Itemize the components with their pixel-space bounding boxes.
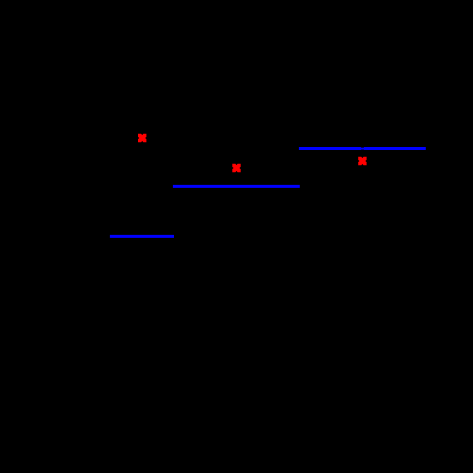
marker X1 (red x) bbox=[138, 134, 146, 142]
segment 1 (blue interval line, lower left) bbox=[110, 235, 174, 238]
marker X3 (red x) bbox=[358, 157, 366, 165]
segment 2 (blue interval line, middle) bbox=[173, 185, 300, 188]
segment 3 (blue interval line, upper right, with seam at x=362.4) bbox=[299, 147, 426, 151]
marker X2 (red x) bbox=[232, 164, 240, 172]
